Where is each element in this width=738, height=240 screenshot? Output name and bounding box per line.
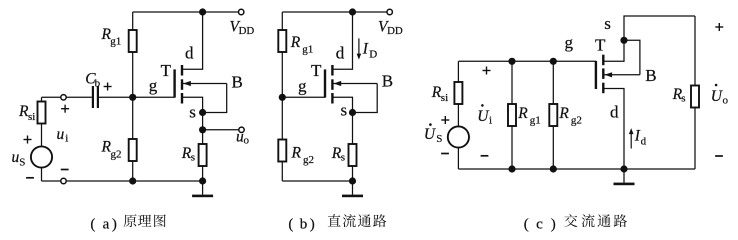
svg-text:si: si	[441, 92, 448, 104]
label + of US (c)	[441, 116, 449, 124]
ground (a)	[192, 181, 213, 197]
channel segments (a)	[181, 65, 183, 104]
svg-text:(: (	[90, 216, 95, 232]
svg-text:g2: g2	[571, 115, 582, 127]
resistor Rs (b)	[349, 113, 357, 182]
node Rg2-top junction (c)	[550, 58, 557, 65]
svg-text:d: d	[610, 103, 619, 122]
svg-text:): )	[310, 216, 315, 232]
source lead (b)	[332, 97, 352, 112]
wire s-to-output-tap (a)	[202, 113, 204, 130]
svg-text:S: S	[436, 133, 442, 145]
svg-text:s: s	[341, 101, 348, 120]
svg-text:u: u	[57, 126, 65, 143]
terminal input bottom (a)	[61, 178, 66, 183]
bulk lead with arrow (c)	[603, 72, 640, 77]
label Rsi (c)	[431, 84, 448, 104]
wire output (a)	[203, 129, 239, 131]
ground (b)	[342, 181, 363, 197]
svg-text:s: s	[191, 152, 195, 164]
label T (b)	[311, 61, 322, 80]
node ground junction (b)	[349, 177, 356, 184]
svg-text:B: B	[382, 72, 393, 91]
label Rg2 (c)	[558, 105, 582, 127]
label ID (b)	[362, 41, 378, 61]
svg-text:I: I	[362, 41, 369, 58]
label T (a)	[161, 61, 172, 80]
current arrow ID (b)	[357, 38, 362, 59]
drain lead (b)	[332, 12, 352, 69]
label - of ui (a)	[61, 169, 69, 171]
svg-text:d: d	[641, 136, 647, 148]
svg-text:i: i	[65, 133, 68, 145]
label B (a)	[232, 73, 243, 92]
node output tap (a)	[199, 126, 206, 133]
label g (c)	[565, 33, 574, 52]
source node dot (c)	[620, 37, 627, 44]
node ground junction (a)	[199, 177, 206, 184]
capacitor Cb (a)	[92, 86, 99, 108]
label s (b)	[341, 101, 348, 120]
label uo (a)	[236, 128, 250, 146]
svg-text:a: a	[103, 216, 110, 232]
svg-text:b: b	[300, 216, 308, 232]
svg-text:R: R	[517, 105, 528, 122]
transistor T (a)	[173, 12, 226, 116]
label s (a)	[189, 102, 196, 121]
svg-text:T: T	[595, 36, 606, 55]
gate bar (a)	[173, 69, 175, 97]
label T (c)	[595, 36, 606, 55]
resistor Rg1 (c)	[508, 61, 516, 169]
resistor Rs (c)	[691, 86, 699, 108]
wire input-to-capacitor (a)	[66, 96, 92, 98]
source node dot (a)	[199, 109, 206, 116]
resistor Rg2 (c)	[549, 61, 557, 169]
svg-text:(: (	[524, 216, 529, 232]
label - of uS (a)	[26, 177, 34, 179]
label VDD (a)	[230, 19, 255, 37]
label + of uS (a)	[24, 136, 32, 144]
node ground junction (c)	[620, 165, 627, 172]
svg-text:B: B	[645, 66, 656, 85]
label + input (a)	[61, 105, 69, 113]
label Id (c)	[634, 128, 647, 148]
node gate junction (a)	[129, 94, 136, 101]
label B (b)	[382, 72, 393, 91]
label d (c)	[610, 103, 619, 122]
svg-text:R: R	[291, 145, 302, 162]
label Uo (c)	[711, 84, 729, 107]
source uS (a)	[31, 146, 52, 167]
source lead (c)	[603, 40, 624, 61]
label - of Uo (c)	[715, 155, 723, 157]
svg-text:d: d	[336, 44, 345, 63]
label d (a)	[185, 44, 194, 63]
svg-text:g1: g1	[530, 115, 541, 127]
label - of US (c)	[441, 153, 449, 155]
svg-text:DD: DD	[387, 25, 403, 37]
transistor T (c)	[595, 37, 640, 169]
label Rs (a)	[181, 145, 195, 164]
svg-text:d: d	[185, 44, 194, 63]
terminal uo (a)	[239, 127, 244, 132]
svg-text:g1: g1	[110, 36, 121, 48]
source node dot (b)	[349, 109, 356, 116]
wire capacitor-to-gate (a)	[99, 96, 175, 98]
wire US-to-bottom-rail (c)	[457, 148, 459, 169]
resistor Rg1 (a)	[129, 12, 137, 97]
svg-text:T: T	[161, 61, 172, 80]
svg-text:s: s	[341, 152, 345, 164]
ground (c)	[614, 169, 635, 185]
svg-text:i: i	[489, 115, 492, 127]
svg-text:T: T	[311, 61, 322, 80]
node drain-supply junction (a)	[199, 8, 206, 15]
svg-text:g: g	[298, 76, 307, 95]
resistor Rsi (c)	[454, 61, 462, 126]
label Rs (c)	[672, 86, 686, 105]
current arrow Id (c)	[629, 128, 634, 148]
label VDD (b)	[378, 19, 403, 37]
bulk-to-source wire (a)	[203, 84, 227, 113]
svg-text:): )	[551, 216, 556, 232]
svg-text:(: (	[288, 216, 293, 232]
terminal VDD (a)	[239, 9, 244, 14]
label + of Uo (c)	[715, 23, 723, 31]
gate bar (c)	[595, 61, 597, 89]
drain lead (a)	[182, 12, 203, 69]
svg-text:g2: g2	[303, 154, 314, 166]
svg-text:): )	[112, 216, 117, 232]
label Cb (a)	[85, 71, 100, 90]
wire uS-to-bottom-rail (a)	[42, 168, 61, 182]
label s (c)	[604, 14, 611, 33]
caption (c)	[524, 214, 627, 232]
label Rg1 (b)	[290, 34, 314, 56]
svg-text:o: o	[723, 95, 729, 107]
source US (c)	[448, 126, 469, 147]
label Rs (b)	[331, 145, 345, 164]
bulk-to-source wire (b)	[353, 84, 378, 113]
node drain-supply junction (b)	[349, 8, 356, 15]
svg-text:s: s	[604, 14, 611, 33]
svg-text:U: U	[424, 126, 437, 143]
terminal VDD (b)	[387, 9, 392, 14]
svg-text:g: g	[149, 76, 158, 95]
svg-text:si: si	[28, 111, 35, 123]
node Rg2-bottom junction (a)	[129, 177, 136, 184]
wire Vdd top rail (b)	[282, 11, 389, 13]
label Ui (c)	[477, 104, 492, 126]
svg-text:g: g	[565, 33, 574, 52]
label Rg2 (b)	[291, 145, 315, 167]
label Rg1 (a)	[101, 26, 122, 48]
label g (b)	[298, 76, 307, 95]
resistor Rg2 (b)	[278, 97, 286, 181]
resistor Rg1 (b)	[278, 12, 286, 97]
svg-text:s: s	[189, 102, 196, 121]
svg-text:R: R	[558, 105, 569, 122]
bulk lead with arrow (b)	[332, 81, 377, 86]
svg-text:o: o	[244, 134, 250, 146]
label d (b)	[336, 44, 345, 63]
svg-text:DD: DD	[239, 25, 255, 37]
channel segments (b)	[331, 65, 333, 104]
svg-text:s: s	[681, 93, 685, 105]
svg-text:b: b	[95, 78, 101, 90]
source lead (a)	[182, 97, 203, 112]
wire bottom rail (c)	[458, 168, 695, 170]
label US (c)	[424, 123, 442, 145]
node Rg1-bottom junction (c)	[508, 165, 515, 172]
label B (c)	[645, 66, 656, 85]
resistor Rsi (a)	[38, 102, 46, 147]
svg-text:g2: g2	[111, 149, 122, 161]
wire bottom rail (a)	[66, 180, 202, 182]
label Rg2 (a)	[101, 139, 122, 161]
label + after Cb (a)	[104, 83, 112, 91]
label - of Ui (c)	[481, 155, 489, 157]
terminal input top (a)	[61, 95, 66, 100]
label ui (a)	[57, 126, 69, 145]
transistor T (b)	[324, 12, 377, 116]
label uS (a)	[12, 149, 26, 169]
bulk-to-source wire (c)	[624, 40, 640, 75]
wire output loop top (c)	[624, 16, 695, 40]
channel segments (c)	[602, 55, 604, 93]
wire gate rail (c)	[458, 60, 596, 62]
caption (b)	[288, 214, 386, 232]
svg-text:D: D	[369, 49, 377, 61]
label Rg1 (c)	[517, 105, 541, 127]
wire Vdd top rail (a)	[133, 11, 242, 13]
svg-text:S: S	[19, 157, 25, 169]
label g (a)	[149, 76, 158, 95]
svg-text:c: c	[536, 216, 543, 232]
label + of Ui (c)	[483, 67, 491, 75]
bulk lead with arrow (a)	[182, 81, 227, 86]
gate bar (b)	[324, 69, 326, 97]
svg-text:R: R	[290, 34, 301, 51]
drain lead (c)	[603, 89, 624, 170]
resistor Rg2 (a)	[129, 97, 137, 181]
caption (a)	[90, 214, 165, 232]
node Rg2-bottom junction (c)	[550, 165, 557, 172]
wire source-to-input-terminal (a)	[42, 97, 61, 102]
wire bottom rail (b)	[282, 180, 352, 182]
svg-text:B: B	[232, 73, 243, 92]
label Rsi (a)	[18, 103, 35, 123]
wire gate (b)	[282, 96, 325, 98]
svg-text:g1: g1	[302, 44, 313, 56]
node gate junction (b)	[279, 94, 286, 101]
resistor Rs (a)	[199, 130, 207, 181]
node Rg1-top junction (c)	[508, 58, 515, 65]
wire right rail (c)	[694, 16, 696, 169]
